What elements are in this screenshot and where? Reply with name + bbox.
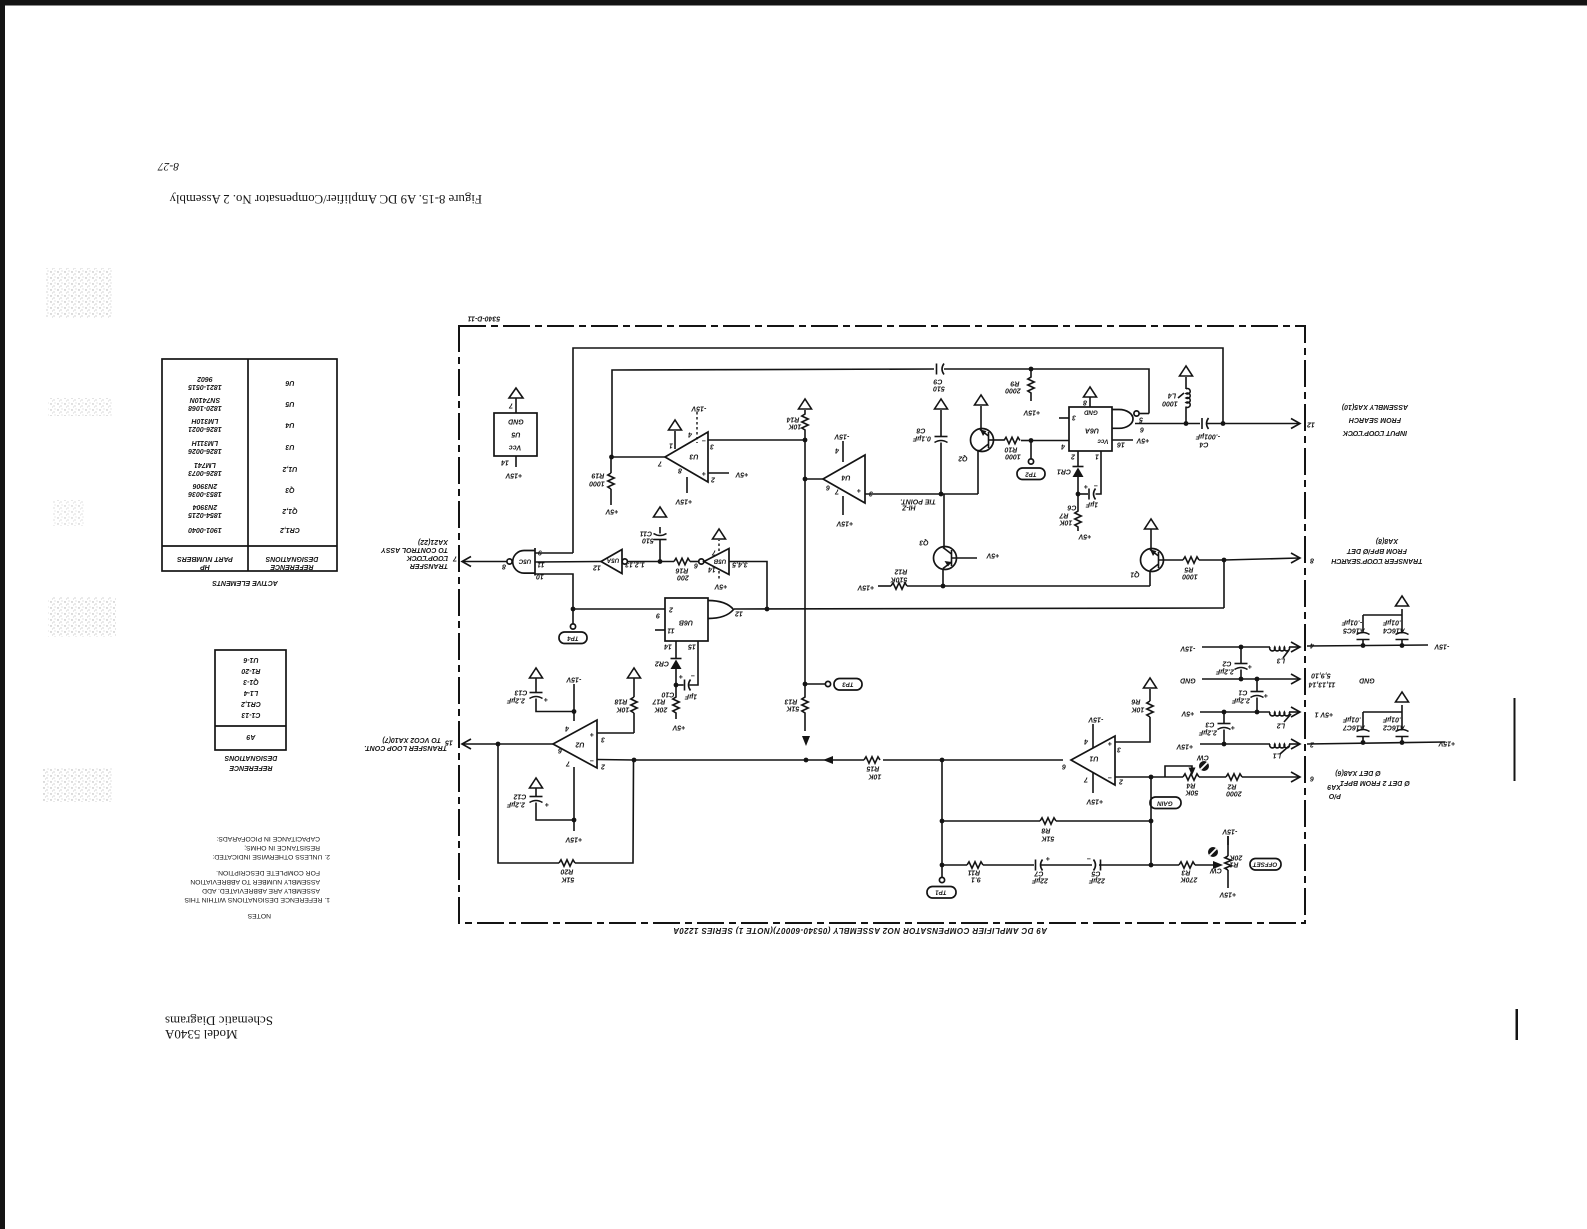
svg-text:1000: 1000 bbox=[1162, 400, 1178, 407]
wire node to U4 and TP3/R13 vertical bbox=[804, 440, 806, 684]
wire U4 input to Hi-Z node bbox=[865, 493, 978, 495]
page frame left bar bbox=[0, 0, 5, 1229]
capacitor C5 bbox=[1087, 855, 1151, 884]
resistor R3 bbox=[1151, 861, 1223, 883]
wire Q1 base node down to long line bbox=[1223, 560, 1225, 608]
svg-text:4: 4 bbox=[835, 447, 840, 454]
svg-text:8: 8 bbox=[502, 563, 506, 570]
capacitor C1 bbox=[1231, 679, 1268, 712]
svg-text:10K: 10K bbox=[1131, 706, 1145, 713]
svg-text:1µF: 1µF bbox=[1085, 501, 1098, 508]
test point TP4 bbox=[559, 609, 587, 644]
svg-text:+15V: +15V bbox=[1085, 798, 1103, 805]
svg-text:FROM BPF/Ø DET: FROM BPF/Ø DET bbox=[1346, 547, 1407, 554]
svg-text:7: 7 bbox=[508, 402, 513, 409]
svg-text:-15V: -15V bbox=[1221, 828, 1237, 835]
svg-text:1000: 1000 bbox=[589, 480, 605, 487]
wire U6A output to C4 line bbox=[1135, 423, 1200, 425]
svg-text:C6: C6 bbox=[1067, 504, 1076, 511]
svg-text:1901-0040: 1901-0040 bbox=[188, 526, 222, 533]
svg-text:8: 8 bbox=[1310, 557, 1314, 564]
svg-text:4: 4 bbox=[1061, 443, 1066, 450]
connector arrow pin 2 bbox=[1291, 739, 1315, 749]
ground above C8 bbox=[935, 399, 948, 409]
test point TP3 bbox=[803, 679, 862, 691]
capacitor C4 bbox=[1195, 418, 1223, 448]
U5B pin14 +5V bbox=[713, 571, 727, 590]
svg-text:4: 4 bbox=[565, 725, 570, 732]
svg-text:51K: 51K bbox=[561, 876, 575, 883]
svg-text:XA8(8): XA8(8) bbox=[1375, 537, 1399, 544]
resistor R7 bbox=[1058, 494, 1091, 540]
svg-text:10K: 10K bbox=[868, 773, 882, 780]
ground for U5 box bbox=[509, 388, 523, 398]
svg-text:U5: U5 bbox=[285, 400, 294, 407]
svg-text:3: 3 bbox=[1117, 746, 1121, 753]
svg-text:+15V: +15V bbox=[1218, 891, 1236, 898]
svg-text:+5V: +5V bbox=[604, 508, 618, 515]
svg-text:CR2: CR2 bbox=[655, 660, 669, 667]
svg-text:GND: GND bbox=[1084, 409, 1098, 416]
svg-text:TIE POINT.: TIE POINT. bbox=[900, 498, 936, 505]
svg-text:+15V: +15V bbox=[564, 836, 582, 843]
svg-text:51K: 51K bbox=[1041, 835, 1055, 842]
resistor R13 with arrow to R15 line bbox=[784, 684, 810, 746]
page frame top bar bbox=[0, 0, 1587, 6]
svg-text:1000: 1000 bbox=[1005, 453, 1021, 460]
svg-text:C11: C11 bbox=[640, 530, 652, 537]
svg-text:7: 7 bbox=[565, 760, 570, 767]
wire U5A to C11 node bbox=[628, 561, 675, 563]
svg-text:2.2µF: 2.2µF bbox=[506, 697, 526, 704]
svg-text:Q3: Q3 bbox=[285, 486, 294, 493]
svg-text:CW: CW bbox=[1196, 754, 1209, 761]
svg-text:11,13,14: 11,13,14 bbox=[1309, 681, 1336, 688]
svg-text:2: 2 bbox=[601, 763, 606, 770]
svg-text:-15V: -15V bbox=[565, 676, 581, 683]
svg-text:5: 5 bbox=[1139, 416, 1143, 423]
one-shot U6A bbox=[1059, 397, 1149, 451]
svg-text:C8: C8 bbox=[916, 427, 925, 434]
resistor R16 bbox=[674, 558, 699, 580]
reference designations table bbox=[215, 650, 286, 771]
svg-text:+: + bbox=[679, 673, 683, 680]
svg-text:6: 6 bbox=[1310, 775, 1314, 782]
U3 pin4 -15V bbox=[688, 405, 706, 444]
svg-text:OFFSET: OFFSET bbox=[1252, 861, 1278, 868]
connector arrow pin 12 bbox=[1291, 419, 1315, 429]
svg-text:Q3: Q3 bbox=[919, 539, 928, 546]
potentiometer R1 (OFFSET) bbox=[1208, 828, 1281, 898]
svg-text:270K: 270K bbox=[1180, 876, 1199, 883]
svg-text:CW: CW bbox=[1209, 867, 1222, 874]
svg-text:7: 7 bbox=[834, 488, 839, 495]
svg-text:U6A: U6A bbox=[1085, 427, 1099, 434]
wire emitter line to Q1 bbox=[943, 585, 1150, 587]
wire: feedback line A bbox=[573, 348, 1223, 553]
svg-text:U5B: U5B bbox=[713, 558, 726, 565]
svg-text:4: 4 bbox=[688, 431, 693, 438]
transistor Q1 bbox=[1130, 529, 1183, 586]
svg-text:4: 4 bbox=[1084, 738, 1089, 745]
svg-text:1. REFERENCE DESIGNATIONS WIT: 1. REFERENCE DESIGNATIONS WITHIN THIS bbox=[184, 896, 330, 903]
svg-text:R8: R8 bbox=[1041, 827, 1050, 834]
resistor R15 bbox=[864, 757, 881, 780]
svg-text:U5C: U5C bbox=[518, 558, 531, 565]
svg-text:TP2: TP2 bbox=[1025, 471, 1037, 478]
svg-text:R5: R5 bbox=[1184, 566, 1193, 573]
svg-text:+: + bbox=[544, 696, 548, 703]
svg-text:10K: 10K bbox=[788, 423, 802, 430]
wire R15 line with arrows bbox=[634, 756, 1063, 764]
connector arrow pin 8 bbox=[1291, 553, 1314, 564]
svg-text:U3: U3 bbox=[689, 453, 698, 460]
svg-text:U4: U4 bbox=[285, 421, 294, 428]
capacitor C13 with ground bbox=[506, 668, 574, 712]
svg-text:A16C7: A16C7 bbox=[1342, 724, 1366, 731]
label P/O XA9 bbox=[1327, 783, 1342, 799]
svg-text:6: 6 bbox=[1062, 763, 1066, 770]
resistor R10 bbox=[1004, 437, 1031, 459]
svg-text:+5V: +5V bbox=[713, 583, 727, 590]
assembly title bbox=[673, 926, 1048, 935]
svg-text:7: 7 bbox=[1083, 776, 1088, 783]
transistor Q3 bbox=[919, 494, 999, 586]
svg-text:XA9: XA9 bbox=[1327, 783, 1342, 790]
Hi-Z tie point label bbox=[900, 498, 936, 511]
svg-text:GND: GND bbox=[1180, 677, 1196, 684]
svg-text:A16C2: A16C2 bbox=[1383, 724, 1406, 731]
svg-text:10K: 10K bbox=[616, 706, 630, 713]
svg-text:U4: U4 bbox=[841, 474, 850, 481]
resistor R2 bbox=[1199, 774, 1299, 797]
U3 pin2 +5V bbox=[708, 471, 748, 478]
label TRANSFER LOOP CONT bbox=[364, 736, 447, 751]
resistor R12 bbox=[856, 568, 943, 591]
svg-text:ASSEMBLY XA5(10): ASSEMBLY XA5(10) bbox=[1341, 403, 1409, 410]
svg-text:U5: U5 bbox=[511, 431, 520, 438]
U1 pin4 -15V bbox=[1084, 716, 1103, 749]
svg-text:+15V: +15V bbox=[856, 584, 874, 591]
inductor L4 bbox=[1162, 377, 1190, 424]
svg-text:+5V: +5V bbox=[671, 724, 685, 731]
svg-text:+15V: +15V bbox=[1437, 740, 1455, 747]
wire U5C pin11 to U5A bbox=[535, 561, 601, 564]
svg-text:-15V: -15V bbox=[1179, 645, 1195, 652]
capacitor C9 bbox=[933, 364, 945, 392]
svg-text:Q2: Q2 bbox=[958, 455, 967, 462]
svg-text:+: + bbox=[857, 487, 861, 494]
svg-text:3: 3 bbox=[1072, 414, 1076, 421]
svg-text:NOTES: NOTES bbox=[247, 912, 271, 919]
svg-text:C2: C2 bbox=[1222, 660, 1231, 667]
potentiometer R4 (GAIN) bbox=[1150, 754, 1209, 809]
svg-text:+: + bbox=[545, 801, 549, 808]
svg-text:-.001µF: -.001µF bbox=[1195, 433, 1220, 440]
-15V feed U2 pin4 bbox=[565, 676, 581, 732]
wire U5C output to connector pin 7 bbox=[463, 561, 507, 563]
svg-text:R10: R10 bbox=[1004, 446, 1017, 453]
svg-text:XA21(22): XA21(22) bbox=[417, 538, 449, 545]
svg-text:U1: U1 bbox=[1089, 755, 1098, 762]
svg-text:C10: C10 bbox=[661, 691, 674, 698]
svg-text:+: + bbox=[590, 731, 594, 738]
svg-text:REFERENCE: REFERENCE bbox=[229, 764, 273, 771]
one-shot U6B bbox=[655, 598, 743, 650]
wire U1 pin2 line bbox=[1115, 776, 1183, 778]
svg-text:510K: 510K bbox=[890, 576, 908, 583]
svg-text:R1: R1 bbox=[1229, 861, 1238, 868]
svg-text:+15V: +15V bbox=[835, 520, 853, 527]
capacitor C3 bbox=[1198, 712, 1235, 744]
svg-text:9: 9 bbox=[656, 612, 660, 619]
diode CR1 bbox=[1057, 451, 1084, 494]
connector arrow pin 7 bbox=[452, 555, 471, 567]
svg-text:TP1: TP1 bbox=[935, 889, 947, 896]
svg-text:Ø DET XA8(6): Ø DET XA8(6) bbox=[1335, 769, 1381, 776]
fold artifact lines bbox=[1514, 698, 1516, 781]
svg-text:1854-0215: 1854-0215 bbox=[188, 511, 222, 518]
svg-text:1: 1 bbox=[669, 442, 673, 449]
svg-text:3: 3 bbox=[869, 490, 873, 497]
svg-text:R4: R4 bbox=[1186, 782, 1195, 789]
svg-text:+5V 1: +5V 1 bbox=[1315, 711, 1334, 718]
svg-text:+: + bbox=[1264, 692, 1268, 699]
wire: line B from U3 output to U6A bbox=[612, 369, 934, 456]
svg-text:1853-0036: 1853-0036 bbox=[188, 490, 222, 497]
svg-text:2N3904: 2N3904 bbox=[193, 503, 219, 510]
wire U2 pin7 +15V bbox=[564, 767, 582, 843]
capacitor C12 with ground bbox=[506, 778, 574, 820]
active elements table bbox=[162, 359, 337, 586]
notes bbox=[184, 835, 330, 919]
svg-text:R13: R13 bbox=[784, 698, 797, 705]
svg-text:11: 11 bbox=[667, 627, 674, 634]
svg-text:1826-0021: 1826-0021 bbox=[188, 425, 222, 432]
svg-text:+15V: +15V bbox=[1022, 409, 1040, 416]
svg-text:REFERENCE: REFERENCE bbox=[270, 563, 314, 570]
resistor R9 bbox=[1005, 367, 1040, 416]
resistor R20 feedback bbox=[498, 744, 634, 883]
svg-text:CR1,2: CR1,2 bbox=[280, 526, 300, 533]
svg-text:+5V: +5V bbox=[1077, 533, 1091, 540]
resistor R6 with ground bbox=[1115, 678, 1157, 742]
svg-text:6: 6 bbox=[1140, 426, 1144, 433]
U3 pin8 +15V bbox=[674, 467, 692, 505]
test point TP2 bbox=[1017, 441, 1045, 480]
wire U2 pin3 bbox=[597, 732, 634, 734]
wire U5B input from U6B line bbox=[729, 562, 767, 610]
svg-text:R18: R18 bbox=[614, 698, 627, 705]
svg-text:LM311H: LM311H bbox=[191, 439, 218, 446]
U4 pin7 +15V bbox=[834, 488, 853, 527]
svg-text:16: 16 bbox=[1117, 441, 1125, 448]
svg-text:-.01µF: -.01µF bbox=[1341, 619, 1362, 626]
svg-text:A16C4: A16C4 bbox=[1383, 627, 1406, 634]
svg-text:L1-4: L1-4 bbox=[244, 689, 259, 696]
svg-text:2: 2 bbox=[1071, 453, 1076, 460]
svg-text:−: − bbox=[1094, 482, 1098, 489]
svg-text:+15V: +15V bbox=[504, 472, 522, 479]
svg-text:20K: 20K bbox=[1229, 854, 1244, 861]
svg-text:R15: R15 bbox=[866, 765, 879, 772]
ground above Q1 bbox=[1145, 519, 1158, 529]
U4 pin4 -15V bbox=[833, 433, 849, 463]
svg-text:HI-Z: HI-Z bbox=[901, 504, 915, 511]
svg-text:TRANSFER LOOP CONT.: TRANSFER LOOP CONT. bbox=[364, 744, 447, 751]
svg-text:0.1µF: 0.1µF bbox=[912, 435, 931, 442]
svg-text:9.1: 9.1 bbox=[971, 876, 981, 883]
svg-text:C7: C7 bbox=[1033, 870, 1043, 877]
capacitor C10 bbox=[661, 641, 698, 700]
connector arrow pin 4 bbox=[1291, 642, 1315, 653]
svg-text:1826-0073: 1826-0073 bbox=[188, 469, 222, 476]
U5B pin7 ground bbox=[713, 529, 726, 551]
svg-text:CR1: CR1 bbox=[1057, 468, 1071, 475]
svg-text:51K: 51K bbox=[786, 705, 800, 712]
connector arrow GND pins bbox=[1291, 672, 1375, 688]
feedthrough caps A16C7/A16C2 on +15V bbox=[1307, 692, 1455, 747]
transistor Q2 bbox=[958, 406, 1004, 494]
svg-text:-15V: -15V bbox=[833, 433, 849, 440]
svg-text:8: 8 bbox=[1083, 399, 1087, 406]
svg-text:R6: R6 bbox=[1131, 698, 1140, 705]
svg-text:2: 2 bbox=[711, 476, 716, 483]
svg-text:DESIGNATIONS: DESIGNATIONS bbox=[224, 754, 277, 761]
svg-text:3: 3 bbox=[601, 736, 605, 743]
svg-text:1: 1 bbox=[1095, 453, 1099, 460]
svg-text:.01µF: .01µF bbox=[1382, 716, 1401, 723]
svg-text:+5V: +5V bbox=[1180, 710, 1194, 717]
svg-text:C12: C12 bbox=[513, 793, 526, 800]
svg-text:R7: R7 bbox=[1058, 512, 1068, 519]
svg-text:A16C5: A16C5 bbox=[1343, 627, 1366, 634]
resistor R5 bbox=[1182, 557, 1224, 580]
svg-text:U2: U2 bbox=[575, 741, 584, 748]
svg-text:2.2µF: 2.2µF bbox=[1231, 697, 1251, 704]
svg-text:+5V: +5V bbox=[734, 471, 748, 478]
svg-text:ACTIVE ELEMENTS: ACTIVE ELEMENTS bbox=[212, 579, 279, 586]
svg-text:1µF: 1µF bbox=[684, 693, 697, 700]
resistor R19 bbox=[589, 457, 618, 515]
svg-text:1826-0026: 1826-0026 bbox=[188, 447, 222, 454]
svg-text:7: 7 bbox=[657, 460, 662, 467]
svg-text:Q1,2: Q1,2 bbox=[282, 507, 297, 514]
svg-text:INPUT LOOP LOCK: INPUT LOOP LOCK bbox=[1342, 429, 1407, 436]
resistor R18 with ground bbox=[614, 668, 640, 733]
+5V rail with L2 bbox=[1180, 710, 1299, 729]
svg-text:Vcc: Vcc bbox=[509, 444, 522, 451]
svg-text:2000: 2000 bbox=[1226, 790, 1243, 797]
svg-text:7: 7 bbox=[452, 555, 457, 562]
svg-text:+: + bbox=[1046, 855, 1050, 862]
resistor R17 bbox=[651, 685, 685, 731]
running head Model 5340A / Schematic Diagrams (upside-down) bbox=[164, 1014, 273, 1043]
resistor R8 bbox=[942, 818, 1151, 842]
wire to connector pin 12 bbox=[1223, 423, 1299, 425]
svg-text:+: + bbox=[1084, 483, 1088, 490]
wire R15 node down to R8 line bbox=[941, 760, 943, 865]
ground above R14 bbox=[799, 399, 812, 409]
svg-text:C1: C1 bbox=[1238, 689, 1247, 696]
svg-text:FOR COMPLETE DESCRIPTION.: FOR COMPLETE DESCRIPTION. bbox=[216, 869, 320, 876]
svg-text:14: 14 bbox=[501, 459, 509, 466]
svg-text:Vcc: Vcc bbox=[1097, 438, 1109, 445]
svg-text:4: 4 bbox=[1310, 642, 1315, 649]
svg-text:+: + bbox=[1108, 740, 1112, 747]
capacitor C2 bbox=[1215, 645, 1252, 679]
svg-text:C9: C9 bbox=[933, 378, 942, 385]
svg-text:8-27: 8-27 bbox=[157, 160, 179, 172]
node U3 out bbox=[609, 455, 614, 460]
ground above C11 bbox=[654, 507, 667, 517]
node CR1/C6/R7 bbox=[1076, 492, 1081, 497]
label TRANSFER LOOP LOCK bbox=[380, 538, 449, 569]
svg-text:14: 14 bbox=[708, 566, 716, 573]
svg-text:−: − bbox=[590, 757, 594, 764]
svg-text:R14: R14 bbox=[786, 416, 799, 423]
svg-text:5,9,10: 5,9,10 bbox=[1311, 672, 1331, 679]
svg-text:200: 200 bbox=[677, 574, 690, 581]
svg-text:2.2µF: 2.2µF bbox=[1198, 729, 1218, 736]
svg-text:SN7410N: SN7410N bbox=[189, 396, 220, 403]
svg-text:C3: C3 bbox=[1205, 721, 1214, 728]
connector arrow pin 6 bbox=[1291, 772, 1314, 782]
svg-text:R2: R2 bbox=[1227, 783, 1236, 790]
svg-text:2: 2 bbox=[1119, 778, 1124, 785]
resistor R11 bbox=[942, 862, 1034, 883]
op-amp U3 bbox=[657, 432, 716, 483]
svg-text:U6: U6 bbox=[285, 379, 294, 386]
svg-text:P/O: P/O bbox=[1328, 792, 1341, 799]
svg-text:Q1: Q1 bbox=[1130, 571, 1139, 578]
node R10/TP2 bbox=[1029, 438, 1034, 443]
svg-text:12: 12 bbox=[593, 564, 601, 571]
svg-text:+: + bbox=[702, 470, 706, 477]
wire U3 pin3 line bbox=[708, 439, 805, 441]
U4 output wire bbox=[805, 478, 823, 480]
svg-text:2: 2 bbox=[669, 606, 674, 613]
U3 pin1 ground bbox=[669, 420, 682, 449]
svg-text:R16: R16 bbox=[675, 567, 688, 574]
svg-text:L2: L2 bbox=[1277, 722, 1285, 729]
NAND gate U5C bbox=[502, 548, 545, 580]
label INPUT LOOP LOCK bbox=[1341, 403, 1409, 436]
IC U5 power box (Vcc/GND) bbox=[494, 398, 537, 479]
svg-text:.01µF: .01µF bbox=[1342, 716, 1361, 723]
svg-text:5340-D-11: 5340-D-11 bbox=[468, 315, 501, 322]
svg-text:22µF: 22µF bbox=[1031, 877, 1049, 884]
svg-text:+5V: +5V bbox=[1135, 437, 1149, 444]
svg-text:TRANSFER LOOP SEARCH: TRANSFER LOOP SEARCH bbox=[1330, 557, 1422, 564]
svg-text:LM310H: LM310H bbox=[191, 417, 219, 424]
svg-text:TP4: TP4 bbox=[567, 635, 579, 642]
wire U2 output to connector pin 15 bbox=[463, 743, 553, 745]
svg-text:15: 15 bbox=[688, 643, 696, 650]
connector arrow pin 1 bbox=[1291, 707, 1333, 718]
wire U5C pin10 to TP4 node bbox=[535, 574, 573, 609]
svg-text:1000: 1000 bbox=[1182, 573, 1198, 580]
svg-text:10K: 10K bbox=[1059, 519, 1073, 526]
svg-text:U3: U3 bbox=[285, 443, 294, 450]
svg-text:−: − bbox=[1087, 855, 1091, 862]
svg-text:−: − bbox=[691, 672, 695, 679]
U1 pin7 +15V bbox=[1083, 773, 1103, 805]
svg-text:C13: C13 bbox=[514, 689, 527, 696]
svg-text:12: 12 bbox=[735, 610, 743, 617]
svg-text:GND: GND bbox=[1359, 677, 1375, 684]
svg-text:R12: R12 bbox=[894, 568, 907, 575]
